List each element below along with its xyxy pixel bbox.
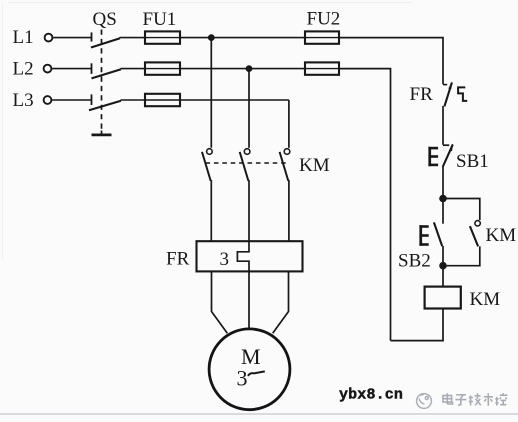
FR heater element jog bbox=[237, 242, 249, 271]
svg-text:FU2: FU2 bbox=[307, 9, 341, 30]
terminal L2 bbox=[44, 65, 52, 73]
wire node A to KM aux branch bbox=[443, 199, 480, 221]
svg-text:L3: L3 bbox=[13, 90, 34, 111]
FR contact trip hook bbox=[458, 87, 467, 101]
wire L1 FU1 to FU2 bbox=[180, 37, 305, 39]
watermark text dianzijishukong bbox=[443, 393, 507, 406]
fuse FU1 pole 2 bbox=[145, 62, 180, 74]
watermark logo bbox=[417, 394, 432, 409]
thermal relay FR NC contact bbox=[443, 81, 452, 106]
wire KM pole1 to FR box bbox=[210, 180, 212, 242]
QS linkage end bar bbox=[92, 131, 112, 135]
KM linkage dashed line bbox=[206, 162, 287, 164]
tilde symbol bbox=[248, 371, 265, 376]
wire L2 FU1 to FU2 bbox=[180, 68, 305, 70]
svg-text:SB1: SB1 bbox=[456, 151, 489, 172]
wire L3 drop to KM bbox=[288, 100, 290, 148]
SB1 button cap E bbox=[428, 147, 438, 166]
node junction L2 bbox=[246, 65, 253, 72]
fuse FU2 bottom bbox=[305, 62, 339, 74]
contactor KM main pole 3 bbox=[280, 149, 290, 181]
pushbutton SB2 NO blade bbox=[434, 222, 442, 246]
wire L1 terminal to QS bbox=[53, 37, 92, 39]
wire FR box to motor right bbox=[273, 271, 289, 333]
wire QS pole3 to FU1 bbox=[121, 99, 146, 101]
svg-text:FR: FR bbox=[410, 84, 434, 105]
fuse FU1 pole 1 bbox=[145, 31, 180, 43]
wire KM pole2 to FR box bbox=[248, 180, 250, 242]
wire KM aux to node B bbox=[443, 246, 480, 265]
contactor KM main pole 2 bbox=[240, 149, 250, 181]
wire L3 FU1 to corner bbox=[180, 99, 289, 101]
svg-text:L1: L1 bbox=[13, 27, 34, 48]
fuse FU1 pole 3 bbox=[145, 94, 180, 106]
wire FU2 top to control right bbox=[339, 38, 443, 85]
svg-text:L2: L2 bbox=[13, 59, 34, 80]
wire FR box to motor left bbox=[212, 271, 228, 333]
wire FR contact to SB1 bbox=[442, 106, 444, 145]
fuse FU2 top bbox=[305, 31, 339, 43]
terminal L3 bbox=[44, 96, 52, 104]
svg-text:FU1: FU1 bbox=[143, 9, 177, 30]
wire FR box to motor middle bbox=[248, 271, 250, 329]
node A junction bbox=[439, 195, 447, 203]
wire SB1 to node A bbox=[442, 167, 444, 199]
pushbutton SB1 NC bbox=[443, 143, 454, 167]
svg-text:3: 3 bbox=[220, 249, 230, 270]
wire L3 terminal to QS bbox=[52, 99, 92, 101]
node junction L1 bbox=[208, 34, 215, 41]
wire KM coil to bottom bbox=[391, 309, 444, 341]
svg-text:QS: QS bbox=[93, 9, 117, 30]
switch QS pole 2 bbox=[92, 63, 122, 78]
wire node A to SB2 bbox=[442, 199, 444, 224]
wire SB2 to node B bbox=[442, 246, 444, 266]
thermal relay FR heater box bbox=[197, 241, 303, 271]
svg-text:KM: KM bbox=[299, 155, 330, 176]
switch QS pole 3 bbox=[89, 94, 121, 110]
node B junction bbox=[439, 262, 447, 270]
wire L1 drop to KM bbox=[210, 38, 212, 148]
wire KM pole3 to FR box bbox=[288, 180, 290, 242]
QS linkage dashed line bbox=[101, 30, 103, 133]
svg-text:SB2: SB2 bbox=[398, 250, 431, 271]
wire node B to KM coil bbox=[442, 266, 444, 287]
wire FU2 bottom to control left bbox=[339, 69, 391, 341]
svg-text:ybx8.cn: ybx8.cn bbox=[339, 387, 403, 404]
SB2 button cap E bbox=[419, 225, 428, 246]
terminal L1 bbox=[45, 34, 53, 42]
svg-text:FR: FR bbox=[166, 249, 190, 270]
wire L2 terminal to QS bbox=[52, 68, 92, 70]
svg-text:KM: KM bbox=[470, 289, 501, 310]
wire QS pole1 to FU1 bbox=[120, 37, 146, 39]
switch QS pole 1 bbox=[91, 32, 120, 47]
svg-text:3: 3 bbox=[237, 365, 248, 390]
coil KM bbox=[425, 287, 461, 309]
wire QS pole2 to FU1 bbox=[121, 68, 146, 70]
svg-text:KM: KM bbox=[486, 225, 517, 246]
wire L2 drop to KM bbox=[248, 69, 250, 148]
contactor KM main pole 1 bbox=[202, 149, 212, 181]
motor M circle bbox=[209, 329, 290, 410]
contactor KM aux NO contact bbox=[470, 221, 480, 247]
